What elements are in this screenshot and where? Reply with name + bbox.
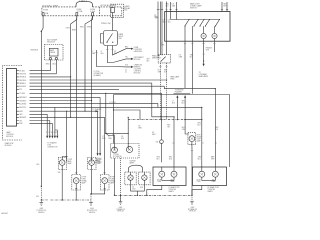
svg-text:VEHICLE: VEHICLE — [117, 211, 123, 213]
svg-text:COURTESY: COURTESY — [134, 49, 142, 51]
ticks on PRNDL outputs — [95, 50, 113, 53]
svg-text:WHT/BLK: WHT/BLK — [19, 80, 27, 82]
svg-text:A00432: A00432 — [2, 212, 8, 215]
connector ticks on feed wires — [169, 8, 228, 10]
svg-text:MODULE: MODULE — [5, 145, 12, 147]
right ground bus dash-dot — [115, 194, 193, 196]
switch blade 4 — [216, 20, 220, 26]
svg-text:RED/BLK: RED/BLK — [206, 47, 212, 49]
fuse junction box dashed border (left section) — [42, 7, 76, 16]
svg-text:C410: C410 — [132, 189, 136, 191]
ground 3 stem — [120, 195, 122, 201]
svg-text:BLU: BLU — [182, 102, 185, 104]
svg-text:VEHICLE: VEHICLE — [38, 212, 44, 214]
indicator ground drop dashed — [120, 158, 122, 201]
svg-text:LT: LT — [172, 100, 174, 102]
flasher underline — [174, 93, 191, 95]
svg-text:TURN: TURN — [157, 181, 161, 183]
svg-text:CONTROL: CONTROL — [6, 134, 14, 136]
ground 4 stem — [191, 195, 193, 201]
svg-text:C JNCT 2: C JNCT 2 — [79, 0, 87, 2]
indicator dashed box — [111, 144, 140, 159]
svg-text:DK: DK — [138, 125, 140, 127]
license lamp 1 dashed box — [125, 172, 136, 185]
ticks on dimmer feeds — [157, 9, 163, 11]
svg-text:YEL: YEL — [167, 127, 170, 129]
svg-text:LT: LT — [102, 136, 104, 138]
svg-text:BLU/RED: BLU/RED — [19, 103, 27, 105]
wire y94.5 long right run — [114, 95, 230, 168]
connector pin wire row 13 — [17, 110, 96, 112]
svg-text:GRN: GRN — [158, 71, 161, 73]
connector pin wire row 14 — [17, 113, 48, 115]
svg-text:BLU: BLU — [163, 22, 166, 24]
LT turn ground drain — [75, 184, 77, 201]
wire fuse F2 straight branch — [76, 16, 78, 175]
svg-text:LT: LT — [161, 43, 163, 45]
flasher arrow up 1 — [176, 98, 178, 120]
svg-text:BLU: BLU — [190, 57, 193, 59]
connector pin wire row 2 — [17, 73, 57, 75]
wire box R entry 2 — [214, 89, 216, 167]
autolamp riser pin1 — [49, 60, 51, 71]
connector pin wire row 6 — [17, 85, 165, 87]
svg-text:C4: C4 — [132, 187, 134, 189]
svg-text:VEHICLE: VEHICLE — [189, 211, 195, 213]
RT turn ground drain — [91, 184, 105, 194]
wire high mount to ground — [191, 142, 193, 196]
svg-text:RT FRT: RT FRT — [97, 159, 102, 161]
connector ticks on rear feeds — [159, 142, 217, 144]
license lamp 2 dashed box — [139, 172, 150, 185]
feed wire 3 stub — [221, 2, 223, 12]
fuse junction box dashed divider — [98, 7, 100, 16]
svg-text:CHIME/LED: CHIME/LED — [134, 65, 143, 67]
svg-text:TOW: TOW — [47, 145, 51, 147]
dimmer feed wire left 2 — [161, 2, 163, 56]
switch blade 3 — [206, 20, 210, 26]
connector pin wire row 1 — [17, 70, 51, 72]
svg-text:BLU: BLU — [172, 102, 175, 104]
lamp symbol circle A in switch box — [201, 33, 206, 38]
main light switch box — [165, 12, 230, 42]
autolamp pin circle 2 — [55, 57, 57, 59]
switch blade 1 — [185, 20, 189, 26]
license ground join — [131, 185, 145, 196]
svg-text:STOP/: STOP/ — [157, 179, 162, 181]
svg-text:TURN: TURN — [197, 181, 201, 183]
svg-text:RT FRONT OF: RT FRONT OF — [87, 210, 97, 212]
junction dot row15 on x71 end — [70, 117, 71, 118]
junction dot row3 on x71 — [70, 76, 71, 77]
svg-text:CONNECTOR: CONNECTOR — [94, 73, 105, 75]
svg-text:RT TURN IND: RT TURN IND — [113, 156, 122, 158]
dimmer feed wire 1 — [159, 2, 161, 55]
box M bulb 1 — [159, 171, 165, 177]
svg-text:DK: DK — [158, 69, 160, 71]
svg-text:DOME: DOME — [134, 47, 139, 49]
connector pin wire row 7 — [17, 88, 120, 90]
LT lamp drain dots — [62, 199, 63, 200]
LT front turn lamp bulb — [73, 178, 79, 184]
connector pin wire row 17 — [17, 122, 53, 124]
fuse F2 — [76, 13, 78, 16]
connector pin wire row 11 — [17, 104, 158, 108]
svg-text:CONTROL: CONTROL — [134, 71, 141, 73]
svg-text:CONNECTOR: CONNECTOR — [47, 147, 58, 149]
svg-text:BLK: BLK — [37, 164, 40, 166]
svg-text:MODULE: MODULE — [134, 73, 140, 75]
svg-text:BRN: BRN — [211, 156, 214, 158]
svg-text:CLUSTER: CLUSTER — [134, 69, 142, 71]
svg-text:GRY/BLK: GRY/BLK — [19, 77, 27, 79]
svg-text:BLK/WHT: BLK/WHT — [19, 86, 26, 88]
svg-text:DK: DK — [114, 51, 116, 53]
svg-text:S30: S30 — [36, 196, 39, 198]
indicator bulb RT — [126, 146, 132, 152]
svg-text:LT GRN: LT GRN — [19, 93, 26, 95]
svg-text:WHT: WHT — [211, 158, 214, 160]
svg-text:RT FRT: RT FRT — [110, 177, 115, 179]
svg-text:RELAY: RELAY — [125, 7, 132, 10]
wire fuse F2 split left branch — [71, 16, 77, 118]
svg-text:WHT: WHT — [223, 6, 226, 8]
RT turn connector tick — [104, 172, 106, 174]
box M outline — [153, 167, 186, 186]
ground 1 stem — [40, 186, 42, 202]
connector ticks below switch box — [184, 43, 216, 45]
svg-text:BLK: BLK — [164, 71, 167, 73]
svg-text:LT: LT — [108, 136, 110, 138]
lamp A tail — [203, 39, 205, 42]
svg-text:GRN: GRN — [172, 6, 175, 8]
svg-text:BLK: BLK — [169, 158, 172, 160]
svg-text:GRY: GRY — [147, 59, 150, 61]
feed wire 4 stub — [226, 2, 228, 12]
svg-text:LT FRT: LT FRT — [67, 159, 72, 161]
autolamp pin circle 1 — [49, 57, 51, 59]
lamp control module dashed enclosure — [3, 66, 23, 141]
box R outline — [193, 167, 227, 186]
wire RT turn feed drop — [104, 117, 106, 174]
relay dashed boxlet top-center-right — [111, 4, 124, 17]
connector pin wire row 10 — [17, 100, 92, 102]
connector pin wire row 8 — [17, 93, 162, 162]
svg-text:SW: SW — [119, 38, 122, 40]
dimmer feed wire left 1 — [157, 2, 159, 56]
dimmer linkage dashed drop 2 — [166, 63, 168, 120]
svg-text:YEL: YEL — [125, 57, 128, 59]
RT front turn lamp dashed box — [100, 175, 109, 191]
svg-text:TURN: TURN — [81, 179, 85, 181]
svg-text:G302: G302 — [39, 208, 43, 210]
svg-text:DK: DK — [152, 132, 154, 134]
svg-text:GRN: GRN — [92, 53, 95, 55]
svg-text:BLK/: BLK/ — [182, 127, 186, 129]
box R ground wire — [192, 186, 202, 196]
svg-text:GRN: GRN — [152, 134, 155, 136]
svg-text:BLU: BLU — [157, 158, 160, 160]
svg-text:ORG/YEL: ORG/YEL — [19, 74, 26, 76]
internal drop to lamp B — [214, 26, 216, 33]
ground 3 junction dot — [120, 195, 121, 196]
LT front park lamp bulb — [59, 160, 65, 166]
dimmer linkage dashed drop 1 — [159, 63, 161, 120]
autolamp inner box — [49, 48, 58, 56]
svg-text:BLU: BLU — [168, 22, 171, 24]
box M bulb 1 pins — [161, 167, 163, 181]
svg-text:BLU: BLU — [197, 124, 200, 126]
LT front turn lamp dashed box — [72, 175, 81, 191]
svg-text:LT FRONT OF: LT FRONT OF — [36, 210, 46, 212]
internal drop 1 — [184, 26, 186, 41]
wire switch box to headlamps arrow — [203, 41, 205, 64]
splice dot S30 — [41, 186, 42, 187]
wire high mount feed from flasher — [185, 120, 189, 134]
LT park ground drain — [61, 165, 63, 200]
svg-text:TURN/HZRD: TURN/HZRD — [175, 89, 185, 91]
license feed arc — [129, 165, 143, 168]
svg-text:LICENSE: LICENSE — [129, 160, 135, 162]
svg-text:SWITCH: SWITCH — [190, 7, 197, 9]
svg-text:PRNDL SW: PRNDL SW — [101, 23, 111, 25]
RT park connector tick — [91, 158, 93, 160]
junction dot on box M feed at linkage — [161, 119, 162, 120]
flasher arrow up 2 — [184, 98, 186, 120]
trailer tow arrows down — [46, 136, 48, 139]
ground 1 symbol — [40, 203, 44, 206]
svg-text:ORG: ORG — [66, 28, 71, 30]
svg-text:C2: C2 — [125, 70, 127, 72]
wire box R entry 1 — [201, 107, 203, 167]
box R bulb 2 pins — [214, 167, 216, 181]
svg-text:WHT/PPL: WHT/PPL — [19, 107, 26, 109]
internal drop 2 — [191, 26, 193, 41]
RT front park lamp bulb — [89, 160, 95, 166]
svg-text:ORG/BLK: ORG/BLK — [19, 100, 27, 102]
svg-text:LT: LT — [92, 51, 94, 53]
fuse F1 — [42, 13, 44, 16]
park feed junction dots — [66, 111, 67, 112]
wire marker feed drop — [105, 93, 107, 133]
wire switch box to flasher 2 — [191, 41, 193, 94]
wire PRNDL out B — [113, 46, 132, 56]
high mount stop lamp bulb — [189, 136, 195, 142]
connector pin wire row 16 — [17, 120, 50, 122]
ground 3 symbol — [119, 202, 123, 205]
fuse junction box dashed border (right section) — [93, 7, 122, 16]
svg-text:GRN: GRN — [108, 138, 111, 140]
license lamp 2 pins — [143, 172, 145, 185]
svg-text:FUSE: FUSE — [43, 9, 49, 11]
dimmer feed wire 2 — [166, 2, 168, 55]
svg-text:DK: DK — [121, 136, 123, 138]
svg-text:DIMMER SW: DIMMER SW — [152, 57, 162, 59]
svg-text:MODULE: MODULE — [134, 59, 140, 61]
svg-text:BLU: BLU — [121, 138, 124, 140]
switch blade 2 — [194, 20, 198, 26]
svg-text:C4 C404: C4 C404 — [110, 102, 116, 104]
LT park feed elbow — [62, 157, 66, 160]
svg-text:BLK: BLK — [215, 129, 218, 131]
svg-text:TN: TN — [49, 132, 51, 134]
splice dot on left drop — [41, 31, 42, 32]
svg-text:LT TURN: LT TURN — [113, 154, 119, 156]
bus2 bend down right — [164, 86, 215, 88]
svg-text:G401: G401 — [119, 207, 123, 209]
wire switch box stub right — [214, 41, 216, 52]
svg-text:S300: S300 — [45, 200, 49, 202]
svg-text:INSTRUMENT: INSTRUMENT — [134, 57, 144, 59]
license lamp 1 pins — [130, 172, 132, 185]
svg-text:G100: G100 — [90, 208, 94, 210]
svg-text:MODULE: MODULE — [6, 136, 13, 138]
ground 2 junction — [90, 193, 91, 194]
indicator bulb1 drain — [114, 158, 116, 195]
internal drop to lamp A — [203, 26, 205, 33]
svg-text:BLK: BLK — [147, 61, 150, 63]
PRNDL side loop — [101, 34, 103, 44]
svg-text:MODULE: MODULE — [47, 41, 55, 43]
license feed stubs — [129, 167, 143, 172]
svg-text:DK: DK — [179, 55, 181, 57]
dash-dot linkage horizontal — [128, 119, 185, 121]
high mount stop lamp dashed box — [188, 132, 196, 144]
connector pin wire row 15 — [17, 116, 105, 118]
box R bulb 2 — [212, 171, 218, 177]
PRNDL internal contact dots — [106, 42, 107, 43]
bus1 bend down right — [152, 83, 174, 117]
svg-text:BLK: BLK — [166, 6, 169, 8]
RT front park lamp dashed box — [88, 158, 96, 170]
wire stub drop x100.1 arrow — [99, 97, 101, 153]
svg-text:GRN: GRN — [161, 45, 164, 47]
box M inner join — [162, 180, 174, 182]
svg-text:STOP/: STOP/ — [197, 179, 202, 181]
svg-text:MOUNT: MOUNT — [197, 136, 203, 138]
svg-text:WHT: WHT — [206, 49, 209, 51]
ground 2 stem — [90, 194, 92, 203]
svg-text:S40: S40 — [58, 172, 61, 174]
box M bulb 2 — [171, 171, 177, 177]
svg-text:MIRROR/: MIRROR/ — [134, 67, 141, 69]
svg-text:BLU: BLU — [114, 53, 117, 55]
left ground bus dash-dot — [41, 199, 91, 201]
svg-text:S44: S44 — [156, 141, 159, 143]
svg-text:G402: G402 — [191, 207, 195, 209]
svg-text:C2 C250: C2 C250 — [94, 71, 100, 73]
svg-text:C1: C1 — [125, 72, 127, 74]
autolamp riser pin2 — [55, 60, 57, 74]
license lamp 1 bulb — [128, 175, 133, 180]
dimmer internal blade — [161, 57, 166, 62]
switch blade extra — [200, 20, 204, 26]
wire switch box to flasher 1 — [184, 41, 186, 88]
svg-text:RED/WHT: RED/WHT — [19, 97, 26, 99]
wire linkage to box R — [185, 119, 202, 121]
svg-text:SENS: SENS — [50, 52, 56, 54]
wire PRNDL out A — [107, 46, 131, 63]
junction dot row4 at dimmer drop — [166, 79, 167, 80]
svg-text:GRN: GRN — [87, 26, 92, 28]
svg-text:LT: LT — [155, 16, 157, 18]
bus3 continuation right — [158, 106, 202, 108]
wire indicator feed — [127, 117, 129, 149]
svg-text:BLK: BLK — [125, 64, 128, 66]
svg-text:YEL: YEL — [19, 120, 22, 122]
wire fuse F3 straight branch — [92, 16, 93, 162]
svg-text:PK: PK — [56, 132, 58, 134]
svg-text:HIGH: HIGH — [197, 134, 201, 136]
feed wire 1 into switch box — [170, 2, 172, 20]
connector pin wire row 12 — [17, 106, 158, 108]
ground 4 symbol — [190, 202, 194, 205]
svg-text:LT: LT — [101, 51, 103, 53]
svg-text:GRN: GRN — [179, 57, 182, 59]
wire fuse F1 to long left drop — [41, 16, 43, 187]
feed wire 2 into switch box — [176, 2, 178, 20]
wire stub drop x97.6 arrow — [97, 111, 99, 153]
RT park ground drain — [91, 165, 93, 194]
lamp B tail — [214, 39, 216, 42]
svg-text:DK: DK — [168, 20, 170, 22]
svg-text:VEHICLE: VEHICLE — [89, 212, 95, 214]
ticks on dimmer feeds — [159, 9, 168, 11]
ground 2 symbol — [89, 203, 93, 206]
LT turn connector tick — [75, 172, 77, 174]
wire fuse F4 down to PRNDL relay — [112, 13, 114, 31]
svg-text:DK BLU: DK BLU — [19, 71, 26, 73]
wire C250 loop to fan — [97, 50, 132, 67]
license lamp 2 bulb — [142, 175, 147, 180]
svg-text:PPL: PPL — [19, 89, 22, 91]
PRNDL switch rounded box — [104, 31, 118, 46]
svg-text:STOP: STOP — [197, 138, 201, 140]
connector pin wire row 4 — [17, 79, 167, 81]
svg-text:RED/BLK: RED/BLK — [31, 50, 39, 52]
svg-text:BLU: BLU — [198, 158, 201, 160]
LT front park lamp dashed box — [58, 158, 66, 170]
wire arrow bend row11 — [55, 107, 57, 135]
park feed arrow head — [96, 110, 99, 112]
junction dot row10 on x91.6 — [91, 100, 92, 101]
box R inner join — [202, 180, 216, 182]
connector ticks on dimmer drops — [159, 66, 168, 68]
box M bulb 2 pins — [173, 167, 175, 181]
battery junction box dome outline — [76, 2, 93, 7]
svg-text:DK: DK — [172, 4, 174, 6]
ground 4 junction — [191, 195, 192, 196]
arrow head down — [203, 64, 205, 67]
connector block body — [7, 69, 17, 127]
connector pin wire row 9 — [17, 96, 101, 98]
box R bulb 1 — [199, 171, 205, 177]
wire box M entry 2 — [173, 117, 175, 167]
RT front turn lamp bulb — [102, 178, 108, 184]
switch internal bus — [171, 19, 221, 21]
indicator bulb LT — [112, 147, 118, 153]
svg-text:GRN: GRN — [155, 18, 158, 20]
relay contact box — [111, 8, 115, 13]
fuse F3 — [92, 13, 94, 16]
connector pin wire row 5 — [17, 82, 152, 84]
PRNDL internal switch blade — [107, 34, 113, 43]
connector pin wire row 3 — [17, 76, 71, 78]
svg-text:LT FRT: LT FRT — [81, 177, 86, 179]
wire LT park feed riser — [66, 111, 68, 161]
box R bulb 1 pins — [201, 167, 203, 181]
box M drain dot — [146, 195, 147, 196]
